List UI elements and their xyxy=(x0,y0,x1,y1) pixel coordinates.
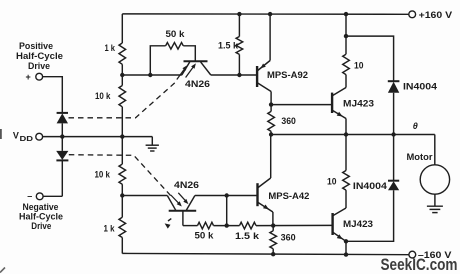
node Q4 emitter junction xyxy=(344,239,348,243)
transistor Q1 emitter xyxy=(258,61,270,71)
wire Q2 emitter down xyxy=(272,212,274,226)
resistor R5 50k top xyxy=(166,43,184,50)
label 4N26 top xyxy=(185,79,210,89)
svg-text:360: 360 xyxy=(281,116,296,126)
label +160 V xyxy=(419,10,453,20)
op-to U2 emitter diagonal xyxy=(186,196,195,211)
svg-text:Drive: Drive xyxy=(31,221,51,231)
node Q2emitter-lineB junction xyxy=(271,223,275,227)
label -160 V xyxy=(418,250,452,260)
wire diode D4 down xyxy=(346,190,394,241)
svg-text:V: V xyxy=(13,131,19,141)
wire column seg2 xyxy=(121,64,123,85)
svg-text:Positive: Positive xyxy=(19,41,53,51)
wire VDD to ground xyxy=(43,136,153,138)
label 1 k top xyxy=(105,43,116,53)
wire node-A right xyxy=(211,74,257,76)
wire 50k right lead xyxy=(183,46,195,61)
diode D4 triangle xyxy=(388,181,399,190)
label VDD xyxy=(13,131,33,143)
resistor R7 360 top xyxy=(268,105,275,135)
node 360-theta junction xyxy=(269,132,273,136)
resistor R11 360 bottom xyxy=(270,226,277,255)
resistor R3 10k bottom xyxy=(119,164,126,184)
wire dashed light path bottom xyxy=(69,155,172,197)
transistor Q2 bar xyxy=(256,183,258,206)
wire column seg4 xyxy=(121,184,123,217)
wire column seg5 xyxy=(121,238,123,254)
wire +160V top rail xyxy=(122,13,409,15)
watermark SeekIC.com xyxy=(381,256,458,274)
node diode-theta junction xyxy=(391,132,395,136)
wire Q1 collector down xyxy=(270,92,272,105)
wire Q3 emitter down xyxy=(345,119,347,135)
svg-text:10 k: 10 k xyxy=(95,91,111,101)
label Half-Cycle bottom xyxy=(19,212,63,222)
diode LED D2 cathode bar xyxy=(56,159,68,161)
wire rail to 10ohm xyxy=(345,14,347,54)
transistor Q3 bar xyxy=(331,93,333,113)
diode LED D1 cathode bar xyxy=(57,112,68,114)
label 4N26 bottom xyxy=(174,180,199,190)
svg-text:10: 10 xyxy=(327,176,337,186)
wire diode D3 to theta xyxy=(393,93,395,135)
label 1.5 k bottom xyxy=(235,231,260,241)
wire LED column lower xyxy=(61,160,63,196)
label Positive xyxy=(19,41,53,51)
resistor R4 1k bottom xyxy=(119,217,126,237)
svg-text:1.5 k: 1.5 k xyxy=(218,41,239,51)
diode LED D2 triangle xyxy=(56,151,68,160)
label - sign xyxy=(27,191,32,201)
transistor Q4 collector xyxy=(333,208,346,216)
label IN4004 top xyxy=(403,81,437,91)
wire theta line xyxy=(271,134,435,136)
op-to U2 emitter arrow xyxy=(165,219,172,229)
svg-text:MPS-A42: MPS-A42 xyxy=(268,191,309,201)
node Q1-collector tee xyxy=(269,102,273,106)
motor M1 circle xyxy=(420,165,449,194)
wire line-B seg1 xyxy=(183,225,198,227)
node 360-rail junction xyxy=(271,252,275,256)
node VDD-LED junction xyxy=(60,134,64,138)
wire 1.5k top lead xyxy=(238,14,240,36)
light arrow U2 a xyxy=(171,195,182,207)
light arrow U1 a xyxy=(177,65,187,79)
wire -160V bottom rail xyxy=(122,253,409,254)
light arrow U1 b xyxy=(186,63,196,77)
wire Q1 emitter to rail xyxy=(269,14,271,60)
node 1.5k bottom junction xyxy=(237,73,241,77)
op-to U2 collector diagonal xyxy=(167,196,175,211)
svg-text:50 k: 50 k xyxy=(166,29,186,39)
op-to U1 base bar xyxy=(184,60,208,62)
label theta xyxy=(413,121,418,131)
wire 50k left lead xyxy=(150,46,165,75)
resistor R2 10k top xyxy=(119,86,126,107)
label 10 bottom xyxy=(327,176,337,186)
svg-text:Drive: Drive xyxy=(28,61,50,71)
label Drive top xyxy=(28,61,50,71)
transistor Q1 collector xyxy=(258,83,271,92)
label 50 k bottom xyxy=(195,230,215,240)
label 360 bottom xyxy=(281,233,296,243)
node VDD-column junction xyxy=(120,134,124,138)
label IN4004 bottom xyxy=(353,181,387,191)
transistor Q3 collector xyxy=(333,88,346,96)
resistor R12 10 bottom xyxy=(343,171,350,191)
wire diode top branch xyxy=(346,36,394,81)
wire column top corner xyxy=(121,14,123,43)
node rail-Q1 junction xyxy=(268,12,272,16)
transistor Q1 bar xyxy=(256,66,258,87)
wire node-B left xyxy=(122,195,167,197)
svg-text:Half-Cycle: Half-Cycle xyxy=(16,51,63,61)
light arrow U2 b xyxy=(178,193,188,204)
svg-text:Motor: Motor xyxy=(407,152,434,162)
wire base drive MJ423 top xyxy=(271,104,332,106)
label MJ423 top xyxy=(343,99,374,109)
svg-text:MPS-A92: MPS-A92 xyxy=(267,70,308,80)
terminal VDD xyxy=(36,133,43,140)
diode D3 triangle xyxy=(388,82,399,93)
label 10 k top xyxy=(95,91,111,101)
wire theta to 10ohm bottom xyxy=(345,135,347,171)
wire node-B right xyxy=(195,195,258,197)
label MJ423 bottom xyxy=(343,219,373,229)
node column-A junction xyxy=(120,73,124,77)
label 1.5 k top xyxy=(218,41,239,51)
svg-text:10: 10 xyxy=(354,60,364,70)
wire Q4 emitter to rail xyxy=(345,241,347,254)
svg-text:1 k: 1 k xyxy=(105,43,116,53)
label Half-Cycle top xyxy=(16,51,63,61)
svg-text:MJ423: MJ423 xyxy=(343,99,374,109)
svg-text:+160 V: +160 V xyxy=(419,10,453,20)
resistor R8 10 top xyxy=(343,54,350,74)
transistor Q2 emitter xyxy=(258,203,273,213)
terminal -160V xyxy=(409,251,416,258)
wire node-A left xyxy=(122,74,182,76)
label Drive bottom xyxy=(31,221,51,231)
transistor Q4 emitter xyxy=(333,233,346,242)
node column-B junction xyxy=(120,193,124,197)
label 360 top xyxy=(281,116,296,126)
svg-text:4N26: 4N26 xyxy=(185,79,210,89)
transistor Q2 collector xyxy=(258,178,271,188)
terminal +160V xyxy=(409,11,416,18)
node connector top junction xyxy=(225,193,229,197)
wire theta to diode D4 xyxy=(393,135,395,181)
wire 1.5k bottom lead xyxy=(238,54,240,75)
terminal + drive xyxy=(36,73,43,80)
diode LED D1 triangle xyxy=(57,113,68,123)
svg-text:10 k: 10 k xyxy=(95,170,111,180)
svg-text:1 k: 1 k xyxy=(104,223,116,233)
wire scan mark left edge xyxy=(0,129,2,139)
svg-text:360: 360 xyxy=(281,233,296,243)
wire theta to motor xyxy=(434,135,436,165)
op-to U1 emitter diagonal xyxy=(201,62,211,75)
terminal - drive xyxy=(36,193,43,200)
resistor R1 1k top xyxy=(119,43,126,64)
ground motor xyxy=(427,194,443,212)
svg-text:1.5 k: 1.5 k xyxy=(235,231,260,241)
transistor Q4 bar xyxy=(331,213,333,235)
label 10 top xyxy=(354,60,364,70)
svg-text:Half-Cycle: Half-Cycle xyxy=(19,212,63,222)
diode D3 cathode bar xyxy=(388,80,400,82)
label + sign xyxy=(26,72,31,82)
node Q3emitter-theta junction xyxy=(344,132,348,136)
svg-text:SeekIC.com: SeekIC.com xyxy=(381,256,458,274)
svg-text:4N26: 4N26 xyxy=(174,180,199,190)
resistor R9 50k bottom xyxy=(198,222,214,229)
label 10 k bottom xyxy=(95,170,111,180)
node 50k tap xyxy=(148,73,152,77)
ground VDD xyxy=(146,137,159,151)
node diode branch tee xyxy=(344,34,348,38)
node connector bottom junction xyxy=(225,223,229,227)
label MPS-A42 xyxy=(268,191,309,201)
transistor Q3 emitter xyxy=(333,111,346,119)
wire line-B seg3 xyxy=(256,224,333,226)
op-to U1 collector diagonal xyxy=(182,62,190,75)
wire theta to Q2 collector xyxy=(270,135,272,179)
resistor R6 1.5k top xyxy=(236,37,243,55)
wire scan mark corner xyxy=(0,268,5,273)
svg-text:50 k: 50 k xyxy=(195,230,215,240)
label 50 k top xyxy=(166,29,186,39)
wire line-B seg2 xyxy=(214,225,240,227)
wire Q3 collector up xyxy=(345,75,347,88)
wire - terminal xyxy=(43,195,62,197)
svg-text:IN4004: IN4004 xyxy=(403,81,437,91)
wire connector vertical xyxy=(226,196,228,226)
wire dashed light path top xyxy=(69,82,177,118)
wire column seg3 xyxy=(121,107,123,164)
wire Q4 collector up xyxy=(345,190,347,208)
wire + terminal to LED column xyxy=(42,77,62,113)
label MPS-A92 xyxy=(267,70,308,80)
wire LED column middle xyxy=(61,123,63,150)
wire U2 base lead xyxy=(182,211,184,226)
node rail-1.5k junction xyxy=(237,12,241,16)
node Q4-rail junction xyxy=(344,252,348,256)
resistor R10 1.5k bottom xyxy=(240,222,257,229)
diode D4 cathode bar xyxy=(388,180,399,182)
op-to U2 base bar xyxy=(169,210,197,212)
node rail-10ohm junction xyxy=(344,12,348,16)
svg-text:θ: θ xyxy=(413,121,418,131)
svg-text:–: – xyxy=(27,191,32,201)
label Negative xyxy=(23,202,59,212)
svg-text:+: + xyxy=(26,72,31,82)
svg-text:IN4004: IN4004 xyxy=(353,181,387,191)
svg-text:DD: DD xyxy=(20,134,34,143)
svg-text:MJ423: MJ423 xyxy=(343,219,373,229)
label Motor xyxy=(407,152,434,162)
label 1 k bottom xyxy=(104,223,116,233)
